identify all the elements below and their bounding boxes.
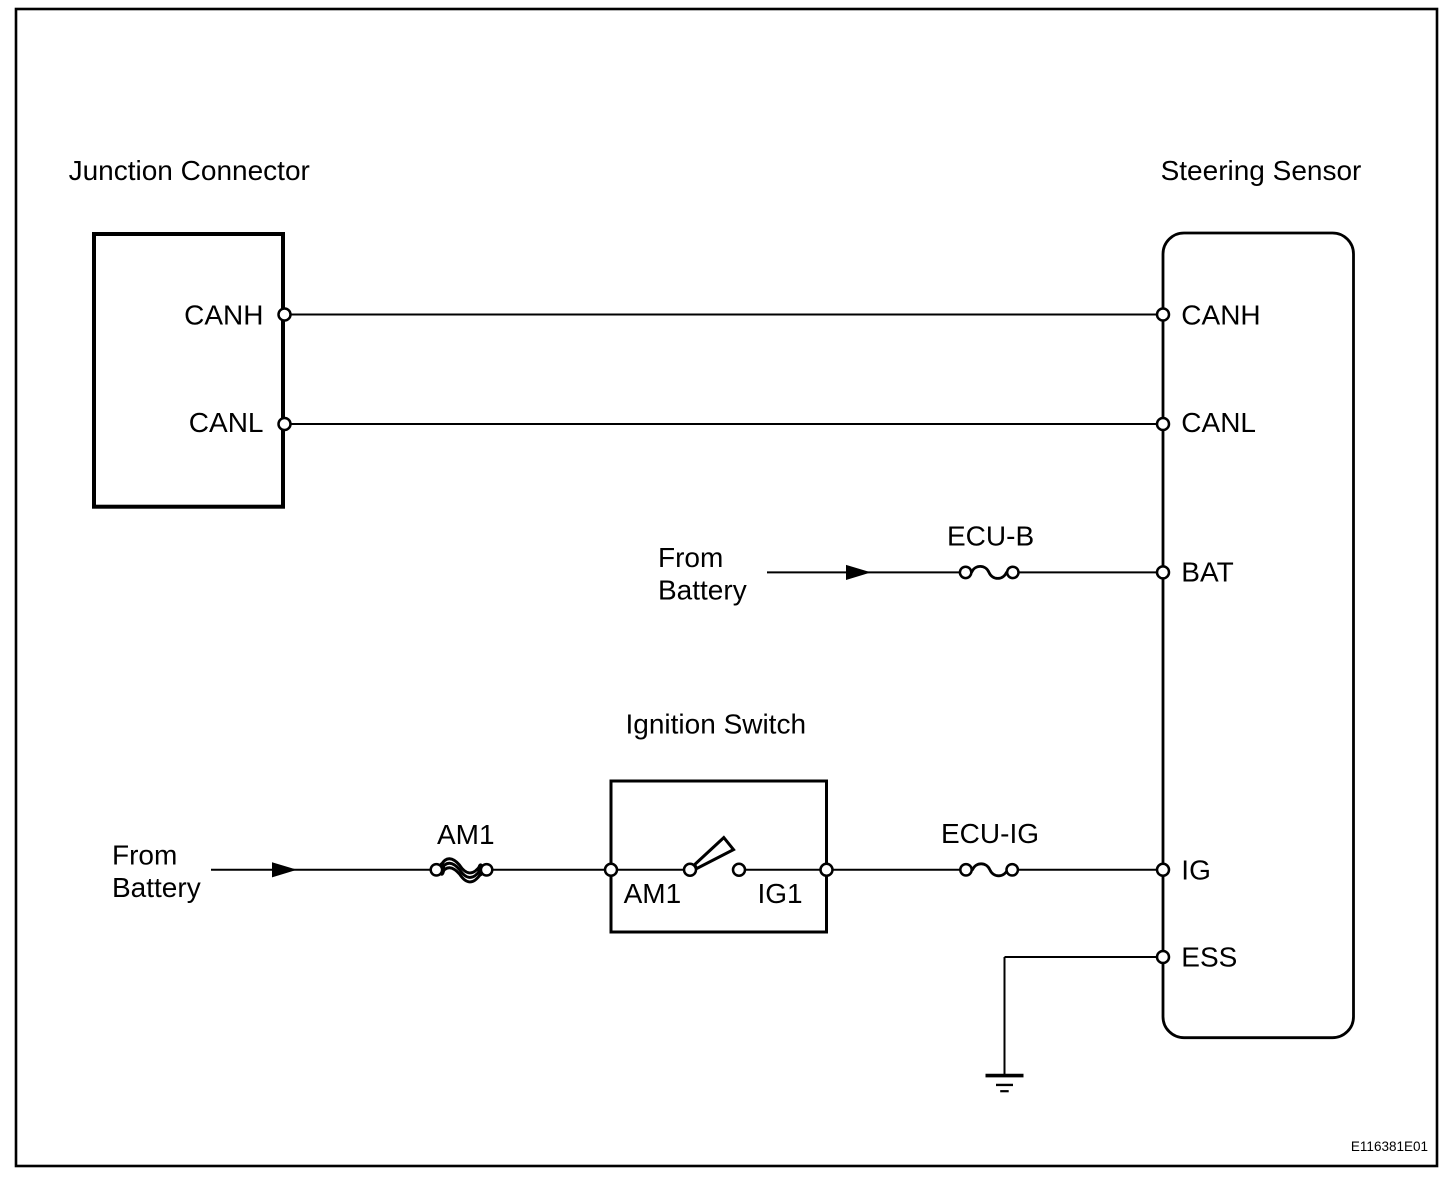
svg-text:From: From: [658, 542, 723, 573]
svg-text:AM1: AM1: [624, 878, 682, 909]
svg-text:BAT: BAT: [1181, 557, 1233, 588]
svg-text:Steering Sensor: Steering Sensor: [1161, 155, 1362, 186]
svg-text:Ignition Switch: Ignition Switch: [626, 709, 807, 740]
svg-text:AM1: AM1: [437, 819, 495, 850]
svg-text:ECU-B: ECU-B: [947, 521, 1034, 552]
svg-text:E116381E01: E116381E01: [1351, 1139, 1428, 1154]
svg-text:Junction Connector: Junction Connector: [69, 155, 310, 186]
svg-text:ESS: ESS: [1181, 942, 1237, 973]
svg-text:IG1: IG1: [758, 878, 803, 909]
svg-text:Battery: Battery: [658, 575, 747, 606]
svg-text:IG: IG: [1181, 855, 1211, 886]
svg-text:CANL: CANL: [1181, 407, 1256, 438]
svg-text:CANH: CANH: [1181, 300, 1260, 331]
svg-text:Battery: Battery: [112, 872, 201, 903]
svg-text:From: From: [112, 840, 177, 871]
svg-text:ECU-IG: ECU-IG: [941, 818, 1039, 849]
svg-text:CANH: CANH: [184, 300, 263, 331]
svg-text:CANL: CANL: [189, 407, 264, 438]
